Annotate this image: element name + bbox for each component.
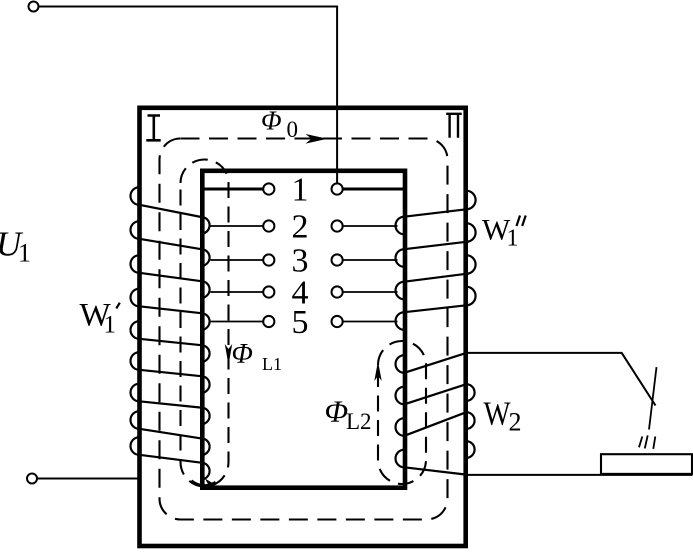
svg-text:Φ: Φ [232, 339, 253, 370]
svg-text:Φ: Φ [261, 106, 282, 136]
wire from top terminal to tap 1 [39, 7, 337, 184]
winding W1-doubleprime on right core leg (top) [396, 191, 476, 330]
brush contact strokes [639, 437, 642, 448]
flux path PHI0 dashed loop [160, 139, 448, 520]
svg-text:1: 1 [292, 172, 309, 209]
tap 1 right lead wire [343, 188, 405, 191]
tap 4 right lead wire [343, 291, 397, 293]
PHI_L1 bottom arrowhead [204, 479, 215, 489]
wire from W2 top to switch blade [467, 353, 656, 406]
label I (core limb I) [146, 116, 160, 141]
leakage flux PHI_L1 dashed loop [181, 160, 229, 487]
tap 2 right lead wire [343, 225, 397, 227]
svg-text:L2: L2 [346, 409, 372, 434]
tap 1 left terminal circle [263, 183, 274, 194]
tap 5 right lead wire [343, 321, 397, 323]
tap selector contact bar [601, 454, 692, 474]
tap 2 right terminal circle [332, 220, 343, 231]
tap 5 left lead wire [211, 321, 263, 323]
svg-text:L1: L1 [262, 354, 282, 374]
tap 4 left terminal circle [263, 286, 274, 297]
svg-text:5: 5 [292, 304, 309, 341]
core window [202, 171, 405, 488]
tap 5 right terminal circle [332, 316, 343, 327]
svg-text:1: 1 [104, 312, 117, 339]
tap 1 left lead wire [203, 188, 263, 191]
leakage flux PHI_L2 dashed loop [378, 341, 426, 484]
PHI_L1 down arrow [225, 344, 232, 365]
winding W1-prime on left core leg [131, 187, 216, 485]
svg-text:1: 1 [507, 226, 519, 252]
tap 2 left terminal circle [263, 220, 274, 231]
flux PHI0 arrow [306, 134, 328, 144]
wire from W2 bottom to contact bar [467, 474, 693, 476]
svg-text:2: 2 [509, 408, 522, 437]
wire from bottom terminal to winding W1-prime [37, 478, 139, 480]
tap 4 right terminal circle [332, 286, 343, 297]
svg-text:1: 1 [18, 239, 31, 268]
svg-text:2: 2 [292, 209, 309, 246]
svg-text:0: 0 [287, 117, 299, 142]
tap 3 right terminal circle [332, 254, 343, 265]
label II (core limb II) [446, 114, 462, 138]
winding W2 on right core leg (bottom) [396, 353, 475, 475]
svg-text:Φ: Φ [325, 393, 349, 428]
PHI_L2 up arrow [374, 361, 381, 381]
primary terminal (bottom left) [27, 474, 37, 484]
switch movable contact arm [649, 367, 657, 429]
primary terminal (top left) [29, 2, 39, 12]
tap 4 left lead wire [211, 291, 263, 293]
core outer boundary [140, 108, 466, 546]
tap 2 left lead wire [211, 225, 263, 227]
tap 1 right terminal circle [332, 183, 343, 194]
tap 5 left terminal circle [263, 316, 274, 327]
svg-text:W: W [484, 396, 512, 433]
tap 3 right lead wire [343, 259, 397, 261]
tap 3 left lead wire [211, 259, 263, 261]
tap 3 left terminal circle [263, 254, 274, 265]
